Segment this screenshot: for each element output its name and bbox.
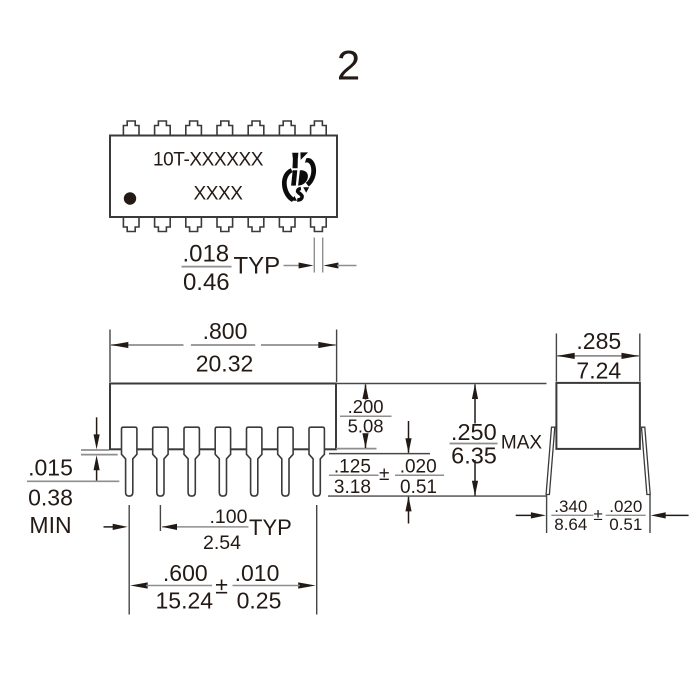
fraction bar .015/0.38 with leader <box>27 480 119 482</box>
dimension .800 dim line right <box>261 344 336 346</box>
svg-text:0.25: 0.25 <box>237 587 282 613</box>
pin 7 center extension line <box>316 505 318 615</box>
logo right arc <box>305 158 316 187</box>
pin 10 bottom <box>248 217 264 232</box>
dimension .015 down arrow <box>96 417 98 435</box>
dimension .800 dim line left <box>111 344 184 346</box>
dimension .340 right arrow (outside) <box>664 514 689 516</box>
svg-text:.015: .015 <box>28 455 73 481</box>
svg-text:0.51: 0.51 <box>609 515 642 534</box>
side lead 2 <box>153 427 168 496</box>
pin 9 bottom <box>279 217 295 232</box>
dimension .250 up arrow <box>474 385 476 424</box>
lead shoulder line <box>329 453 430 455</box>
svg-text:.125: .125 <box>334 457 371 478</box>
svg-text:±: ± <box>593 505 602 524</box>
svg-text:TYP: TYP <box>249 515 292 540</box>
svg-text:.600: .600 <box>163 560 208 586</box>
dimension .100 right arrow (outside) <box>162 526 189 528</box>
svg-text:7.24: 7.24 <box>576 358 621 384</box>
fraction bar .020/0.51 <box>395 474 444 476</box>
svg-text:0.46: 0.46 <box>183 269 230 296</box>
svg-text:0.38: 0.38 <box>28 484 73 510</box>
pin 7 top <box>311 121 327 136</box>
dimension .015 up arrow <box>96 469 98 481</box>
side view body <box>110 384 336 450</box>
logo left arc <box>282 168 294 202</box>
pin 2 top <box>155 121 171 136</box>
body top edge extension line <box>336 383 547 385</box>
side lead 5 <box>247 427 262 496</box>
svg-text:.020: .020 <box>609 497 642 516</box>
top view pins row (bottom side) <box>123 217 326 232</box>
side lead 4 <box>215 427 230 496</box>
svg-text:.285: .285 <box>576 328 621 354</box>
dimension .125 down arrow <box>408 421 410 453</box>
svg-text:MIN: MIN <box>29 512 71 538</box>
end view right lead <box>642 427 651 494</box>
svg-text:.800: .800 <box>203 318 248 344</box>
fraction bar .125/3.18 <box>329 474 379 476</box>
dimension .600 arrow right <box>298 582 316 588</box>
svg-text:.020: .020 <box>400 457 437 478</box>
svg-text:XXXX: XXXX <box>193 184 243 205</box>
fraction bar .800/20.32 <box>191 344 255 346</box>
logo letter S curve <box>297 189 302 200</box>
dimension .800 arrow right <box>318 342 336 348</box>
body bottom edge short extension <box>336 448 377 450</box>
dimension .285 arrow left <box>557 353 575 359</box>
pin 1 top <box>123 121 139 136</box>
dimension .018 arrow right-pointing <box>299 263 314 269</box>
dimension .125 up arrow <box>408 497 410 524</box>
top view package body <box>110 136 337 218</box>
fraction bar .200/5.08 <box>340 415 392 417</box>
svg-text:.010: .010 <box>235 560 280 586</box>
end view body <box>556 383 640 449</box>
side lead 1 <box>122 427 137 496</box>
end view left lead <box>546 427 555 494</box>
YDS logo <box>282 152 316 202</box>
dimension .800 arrow left <box>111 342 129 348</box>
fraction bar .100/2.54 <box>189 526 249 528</box>
svg-text:±: ± <box>215 572 228 598</box>
fraction bar .010/0.25 <box>233 585 284 587</box>
svg-text:MAX: MAX <box>501 433 543 454</box>
svg-text:2.54: 2.54 <box>203 532 241 554</box>
dimension .340 right extension line <box>649 494 651 533</box>
svg-text:8.64: 8.64 <box>554 515 587 534</box>
dimension .285 arrow right <box>622 353 640 359</box>
pin 8 bottom <box>311 217 327 232</box>
pin 11 bottom <box>217 217 233 232</box>
fraction bar .600/15.24 <box>156 585 212 587</box>
pin 14 bottom <box>123 217 139 232</box>
logo S bottom-left triangle <box>292 196 297 201</box>
dimension .018 arrow left-pointing <box>323 263 338 269</box>
svg-text:15.24: 15.24 <box>156 587 214 613</box>
side lead 3 <box>184 427 199 496</box>
dimension .340 left extension line <box>546 494 548 533</box>
dimension .285 dim line <box>557 355 639 357</box>
fraction bar .018/0.46 <box>182 266 232 268</box>
logo S top-right triangle <box>303 187 309 193</box>
svg-text:6.35: 6.35 <box>451 443 497 469</box>
svg-text:0.51: 0.51 <box>400 477 437 498</box>
logo Y right triangle <box>300 152 308 160</box>
svg-text:.200: .200 <box>348 396 384 417</box>
svg-text:.250: .250 <box>451 419 497 445</box>
logo letter D stem <box>291 170 297 185</box>
dimension .800 left extension line <box>109 330 111 383</box>
dimension .018 TYP dim line left <box>284 265 301 267</box>
pin 4 top <box>217 121 233 136</box>
.015 gap line upper left <box>81 449 109 451</box>
dimension .018 dim line right <box>337 265 357 267</box>
dimension .600 arrow left <box>130 582 148 588</box>
svg-text:20.32: 20.32 <box>196 350 254 376</box>
svg-text:.018: .018 <box>182 241 229 268</box>
svg-text:±: ± <box>379 464 389 485</box>
svg-text:2: 2 <box>337 42 360 89</box>
side view leads <box>122 427 325 496</box>
pin 5 top <box>248 121 264 136</box>
dimension .100 left arrow (outside) <box>104 526 114 528</box>
.015 gap line lower left <box>81 454 118 456</box>
svg-text:10T-XXXXXX: 10T-XXXXXX <box>153 149 264 170</box>
dimension .800 right extension line <box>336 330 338 383</box>
lead width extension line right <box>322 238 324 273</box>
pin 2 center extension line <box>159 505 161 531</box>
fraction bar .340/8.64 <box>551 514 593 516</box>
fraction bar .250/6.35 <box>450 443 498 445</box>
dimension .285 right extension line <box>639 334 641 382</box>
pin 6 top <box>279 121 295 136</box>
lead tip seating line <box>328 495 547 497</box>
svg-text:3.18: 3.18 <box>334 477 371 498</box>
pin 12 bottom <box>186 217 202 232</box>
svg-text:TYP: TYP <box>234 252 281 279</box>
lead width extension line left <box>313 238 315 273</box>
dimension .200 up arrow <box>365 385 367 400</box>
dimension .250 down arrow <box>474 460 476 496</box>
top view pins row (top side) <box>123 121 326 136</box>
svg-text:.100: .100 <box>210 506 248 528</box>
pin 3 top <box>186 121 202 136</box>
pin 13 bottom <box>155 217 171 232</box>
side lead 7 <box>309 427 324 496</box>
pin 1 index dot <box>124 192 136 204</box>
pin 1 center extension line <box>128 505 130 615</box>
dimension .285 left extension line <box>555 334 557 382</box>
logo letter Y <box>292 153 298 169</box>
dimension .200 down arrow <box>365 434 367 448</box>
logo letter D bowl <box>298 170 308 185</box>
fraction bar .020/0.51 (end view) <box>606 514 646 516</box>
dimension .340 left arrow (outside) <box>516 514 533 516</box>
side lead 6 <box>278 427 293 496</box>
svg-text:.340: .340 <box>554 497 587 516</box>
